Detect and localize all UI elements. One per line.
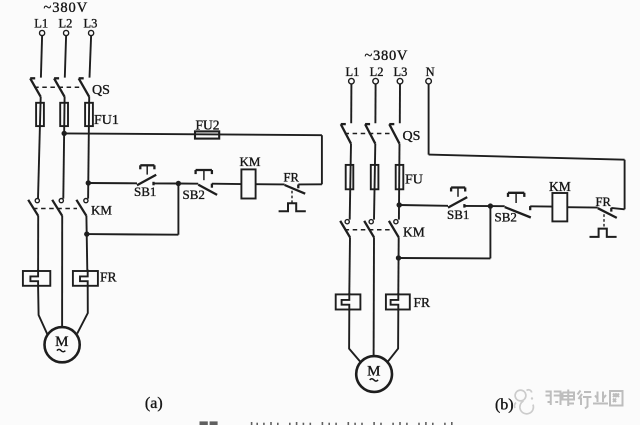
wire SB1 to junction (b)	[464, 205, 490, 207]
node control feed tap on L2 (a)	[61, 131, 66, 136]
wire motor lead L1 (a)	[38, 287, 47, 334]
contactor KM fixed contact pole3 (a)	[84, 199, 88, 203]
wire L2 mid (a)	[63, 97, 64, 199]
contactor KM fixed contact pole2 (b)	[369, 220, 373, 224]
wire motor lead L3 (b)	[388, 311, 399, 362]
wire L2 top (b)	[374, 84, 376, 123]
wire L3 lower (b)	[397, 237, 399, 294]
wire L3 mid (a)	[88, 97, 89, 199]
coil KM (b)	[552, 193, 567, 221]
svg-text:N: N	[426, 65, 435, 79]
pushbutton SB1 (a)	[137, 165, 156, 185]
coil KM (a)	[241, 169, 255, 198]
wire motor lead L3 (a)	[77, 287, 88, 334]
svg-text:SB2: SB2	[495, 209, 517, 224]
terminal L3 (b)	[397, 78, 403, 84]
svg-text:FU1: FU1	[94, 113, 119, 128]
svg-text:KM: KM	[240, 154, 261, 169]
KM mechanical link dashed (a)	[33, 208, 77, 210]
fuse FU1 pole1 (a)	[36, 103, 44, 126]
wire N vertical (b)	[428, 84, 430, 154]
wire L3 mid (b)	[398, 144, 401, 220]
wire control feed (a)	[64, 133, 322, 135]
svg-text:KM: KM	[403, 225, 425, 240]
wire junction to SB2 (a)	[178, 183, 198, 185]
thermal heater FR pole1 element (a)	[30, 270, 38, 288]
contactor KM blade pole3 (a)	[76, 200, 86, 216]
wire SB1 to junction (a)	[154, 182, 179, 184]
wire L2 lower (a)	[61, 216, 63, 327]
wire L2 lower (b)	[373, 237, 375, 356]
contactor KM fixed contact pole3 (b)	[394, 220, 398, 224]
wire L2 mid (b)	[374, 144, 375, 220]
thermal heater FR pole1 element (b)	[342, 293, 350, 311]
svg-text:FU2: FU2	[196, 118, 220, 133]
contactor KM fixed contact pole1 (a)	[35, 199, 39, 203]
fuse FU pole2 (b)	[371, 165, 379, 189]
node control feed tap on L3 (b)	[397, 202, 402, 207]
contactor KM blade pole2 (a)	[52, 200, 62, 216]
watermark text 弱电行业网	[546, 390, 623, 409]
wire L1 top (a)	[41, 36, 42, 78]
wire N horizontal (b)	[429, 155, 625, 160]
KM mechanical link dashed (b)	[345, 229, 393, 231]
QS mechanical link dashed (b)	[345, 133, 393, 135]
node control row tap on L3 (a)	[86, 180, 91, 185]
svg-text:L1: L1	[34, 17, 48, 31]
wire L1 mid (a)	[38, 97, 41, 199]
node latch tap on L3 (a)	[84, 231, 89, 236]
wire L1 mid (b)	[350, 144, 351, 220]
svg-text:QS: QS	[403, 129, 421, 144]
fuse FU1 pole3 (a)	[85, 103, 93, 126]
svg-text:KM: KM	[91, 203, 112, 218]
wire motor lead L1 (b)	[349, 311, 360, 362]
node latch junction (a)	[176, 181, 181, 186]
wire L1 lower (a)	[37, 216, 39, 271]
wire latch horizontal (b)	[399, 257, 491, 259]
svg-text:SB2: SB2	[183, 187, 205, 202]
node latch junction (b)	[488, 203, 493, 208]
QS mechanical link dashed (a)	[34, 86, 82, 88]
thermal contact FR (a)	[279, 185, 306, 212]
svg-text:M: M	[367, 364, 380, 380]
wire L1 top (b)	[350, 84, 352, 123]
wire L3 top (b)	[399, 84, 401, 123]
wire SB2 to KM coil (a)	[212, 183, 242, 185]
terminal L2 (a)	[64, 30, 69, 35]
contactor KM fixed contact pole1 (b)	[345, 220, 349, 224]
wire SB2 to KM coil (b)	[530, 205, 552, 207]
wire latch horizontal (a)	[87, 233, 179, 236]
svg-text:FU: FU	[405, 172, 423, 187]
svg-text:(a): (a)	[145, 395, 163, 412]
switch QS pole2 (a)	[54, 78, 65, 97]
svg-text:SB1: SB1	[447, 207, 469, 222]
pushbutton SB2 (a)	[196, 170, 218, 195]
figure caption (cut off at bottom edge)	[200, 421, 453, 425]
svg-text:(b): (b)	[495, 397, 514, 414]
svg-text:M: M	[55, 334, 68, 350]
wire latch vertical (b)	[489, 206, 491, 258]
wire KM coil to FR (a)	[256, 183, 285, 185]
wire feed right drop (a)	[321, 135, 323, 184]
thermal heater FR pole3 element (a)	[80, 270, 88, 288]
svg-text:L3: L3	[393, 65, 407, 79]
terminal L3 (a)	[89, 30, 94, 35]
svg-text:FR: FR	[284, 170, 300, 184]
terminal L1 (a)	[40, 30, 45, 35]
wire FR to right drop (a)	[298, 183, 322, 185]
thermal contact FR (b)	[590, 208, 617, 237]
svg-text:L2: L2	[370, 65, 384, 79]
svg-text:QS: QS	[92, 83, 110, 98]
wire junction to SB2 (b)	[490, 205, 504, 207]
wire L1 lower (b)	[348, 237, 351, 294]
contactor KM fixed contact pole2 (a)	[59, 199, 63, 203]
thermal heater FR pole1 box (a)	[23, 271, 50, 286]
motor tilde (a)	[57, 349, 65, 351]
svg-text:FR: FR	[596, 195, 612, 209]
pushbutton SB2 (b)	[505, 193, 531, 218]
thermal heater FR pole1 box (b)	[336, 294, 361, 309]
motor M (b)	[356, 356, 392, 392]
svg-text:~380V: ~380V	[44, 0, 89, 16]
switch QS pole1 (b)	[341, 124, 351, 144]
terminal L2 (b)	[373, 78, 379, 84]
wire L2 top (a)	[65, 36, 66, 78]
motor M (a)	[45, 327, 80, 362]
svg-text:KM: KM	[549, 179, 571, 194]
wire row to SB1 (b)	[399, 204, 448, 207]
wire FR to right drop (b)	[611, 208, 624, 209]
motor tilde (b)	[370, 379, 378, 381]
wire row to SB1 (a)	[88, 182, 137, 184]
wire KM coil to FR (b)	[567, 206, 598, 208]
thermal heater FR pole3 box (b)	[386, 294, 410, 309]
watermark logo	[514, 390, 533, 414]
wire L3 lower (a)	[85, 216, 88, 271]
contactor KM blade pole3 (b)	[389, 221, 399, 237]
wire L3 top (a)	[90, 36, 92, 78]
switch QS pole2 (b)	[365, 124, 375, 144]
switch QS pole3 (b)	[389, 124, 399, 144]
wire N right drop (b)	[624, 160, 626, 210]
svg-text:FR: FR	[100, 269, 117, 284]
fuse FU2 (a)	[195, 131, 219, 138]
svg-text:L3: L3	[84, 17, 98, 31]
fuse FU1 pole2 (a)	[60, 103, 68, 126]
contactor KM blade pole1 (b)	[340, 221, 350, 237]
terminal N (b)	[426, 78, 432, 84]
thermal heater FR pole3 element (b)	[391, 293, 399, 311]
svg-text:FR: FR	[414, 295, 431, 310]
svg-text:SB1: SB1	[134, 184, 156, 199]
svg-text:L1: L1	[346, 65, 360, 79]
wire latch vertical (a)	[177, 184, 179, 235]
contactor KM blade pole2 (b)	[364, 221, 374, 237]
svg-text:~380V: ~380V	[365, 48, 409, 64]
pushbutton SB1 (b)	[448, 188, 467, 208]
contactor KM blade pole1 (a)	[28, 200, 38, 216]
terminal L1 (b)	[349, 78, 355, 84]
switch QS pole1 (a)	[30, 78, 41, 97]
switch QS pole3 (a)	[79, 78, 90, 97]
node latch tap on L3 (b)	[396, 255, 401, 260]
thermal heater FR pole3 box (a)	[73, 271, 98, 286]
fuse FU pole3 (b)	[396, 165, 404, 189]
svg-text:L2: L2	[59, 17, 73, 31]
fuse FU pole1 (b)	[346, 165, 354, 189]
